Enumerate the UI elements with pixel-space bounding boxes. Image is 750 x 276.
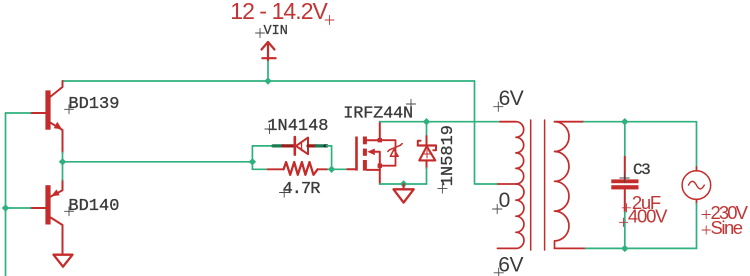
- anchor VIN: [256, 29, 265, 38]
- node emitters junction: [59, 158, 66, 165]
- transformer T1 secondary winding: [555, 122, 570, 249]
- wire resistor branch right: [328, 168, 332, 170]
- body diode loop of Q3: [380, 140, 396, 166]
- wire BD139 base to left bus: [6, 112, 31, 114]
- wire BD140 base to left bus: [6, 207, 31, 209]
- wire cap top: [624, 122, 626, 157]
- svg-text:C3: C3: [633, 161, 650, 179]
- ground stub under Q3: [403, 184, 405, 189]
- node cap top junction: [621, 118, 628, 125]
- pin dark red right of D1: [308, 144, 317, 147]
- wire emitter link vertical: [62, 153, 64, 181]
- anchor 6V top: [494, 102, 503, 111]
- transistor Q2 BD140: [31, 180, 63, 254]
- node network left junction: [249, 158, 256, 165]
- anchor 4.7R: [280, 188, 289, 197]
- node ground junction: [400, 180, 407, 187]
- node gate junction: [328, 166, 335, 173]
- anchor 6V bottom: [494, 268, 503, 276]
- node drain blob: [378, 138, 382, 142]
- diode D2 1N5819: [418, 136, 436, 168]
- svg-text:Sine: Sine: [711, 217, 743, 238]
- wire segment dark green right of D1: [317, 144, 326, 147]
- wire network right vertical: [331, 146, 333, 169]
- anchor 0 tap: [493, 204, 502, 213]
- svg-text:0: 0: [499, 189, 511, 212]
- wire left bus vertical: [5, 113, 7, 276]
- anchor C3: [620, 173, 629, 182]
- wire segment dark green left of D1: [273, 144, 283, 147]
- svg-text:12 - 14.2V: 12 - 14.2V: [230, 0, 328, 24]
- node cap bottom junction: [621, 245, 628, 252]
- svg-text:1N4148: 1N4148: [267, 117, 328, 136]
- wire rail right drop to transformer tap: [475, 81, 499, 184]
- wire 1N5819 top stub: [426, 122, 428, 136]
- anchor 230V: [702, 210, 710, 218]
- svg-text:BD139: BD139: [68, 95, 119, 114]
- capacitor C3: [611, 157, 638, 212]
- wire gate: [332, 168, 348, 170]
- ground under BD140: [54, 255, 73, 267]
- wire top VIN rail: [63, 80, 475, 82]
- transformer T1 primary top pin: [500, 121, 516, 123]
- transformer T1 primary winding top: [516, 122, 524, 184]
- node VIN junction: [264, 77, 271, 84]
- transformer T1 secondary bottom pin: [555, 247, 586, 249]
- pin dark red left of D1: [283, 144, 293, 147]
- transformer T1 primary winding bottom: [516, 184, 524, 248]
- wire resistor branch left: [252, 168, 267, 170]
- node source blob: [378, 164, 382, 168]
- wire drain rail: [380, 121, 500, 123]
- anchor BD140: [65, 207, 74, 216]
- transformer T1 secondary top pin: [555, 121, 584, 123]
- ground under Q3: [394, 189, 414, 202]
- svg-text:400V: 400V: [628, 206, 668, 227]
- transformer T1 primary tap pin: [498, 183, 516, 185]
- wire network left vertical: [251, 146, 253, 169]
- AC source V1: [682, 167, 711, 204]
- wire AC source top: [696, 122, 698, 167]
- wire secondary top: [584, 121, 697, 123]
- anchor 1N4148: [265, 124, 274, 133]
- transistor Q1 BD139: [31, 81, 63, 153]
- node drain junction: [423, 118, 430, 125]
- svg-text:4.7R: 4.7R: [283, 180, 321, 199]
- wire AC source bottom: [696, 204, 698, 249]
- power flag VIN: [262, 42, 276, 60]
- wire diode branch left: [252, 145, 273, 147]
- anchor 400V: [619, 218, 627, 226]
- wire diode branch right: [327, 145, 332, 147]
- wire 1N5819 bottom: [426, 168, 428, 184]
- anchor BD139: [65, 105, 74, 114]
- wire VIN stub: [267, 60, 269, 81]
- transformer T1 core: [531, 120, 545, 250]
- resistor R1 4.7R: [268, 162, 328, 175]
- wire source to ground run: [380, 183, 427, 185]
- diode D1 1N4148: [295, 137, 308, 155]
- wire secondary bottom: [586, 247, 697, 249]
- wire emitters to RC network: [63, 161, 253, 163]
- anchor 1N5819: [438, 184, 447, 193]
- svg-text:IRFZ44N: IRFZ44N: [343, 104, 413, 123]
- wire cap bottom: [624, 212, 626, 248]
- body diode symbol of Q3: [388, 144, 402, 157]
- node left bus junction: [2, 204, 9, 211]
- anchor Sine: [702, 226, 710, 234]
- anchor 12 - 14.2V: [325, 16, 334, 25]
- anchor 1N5819 symbol: [423, 150, 431, 158]
- svg-text:1N5819: 1N5819: [439, 125, 458, 186]
- svg-text:VIN: VIN: [264, 24, 288, 39]
- transformer T1 primary bottom pin: [498, 247, 516, 249]
- anchor IRFZ44N: [406, 99, 415, 108]
- svg-text:BD140: BD140: [68, 197, 119, 216]
- anchor 2uF: [622, 204, 630, 212]
- mosfet Q3 IRFZ44N: [347, 122, 380, 184]
